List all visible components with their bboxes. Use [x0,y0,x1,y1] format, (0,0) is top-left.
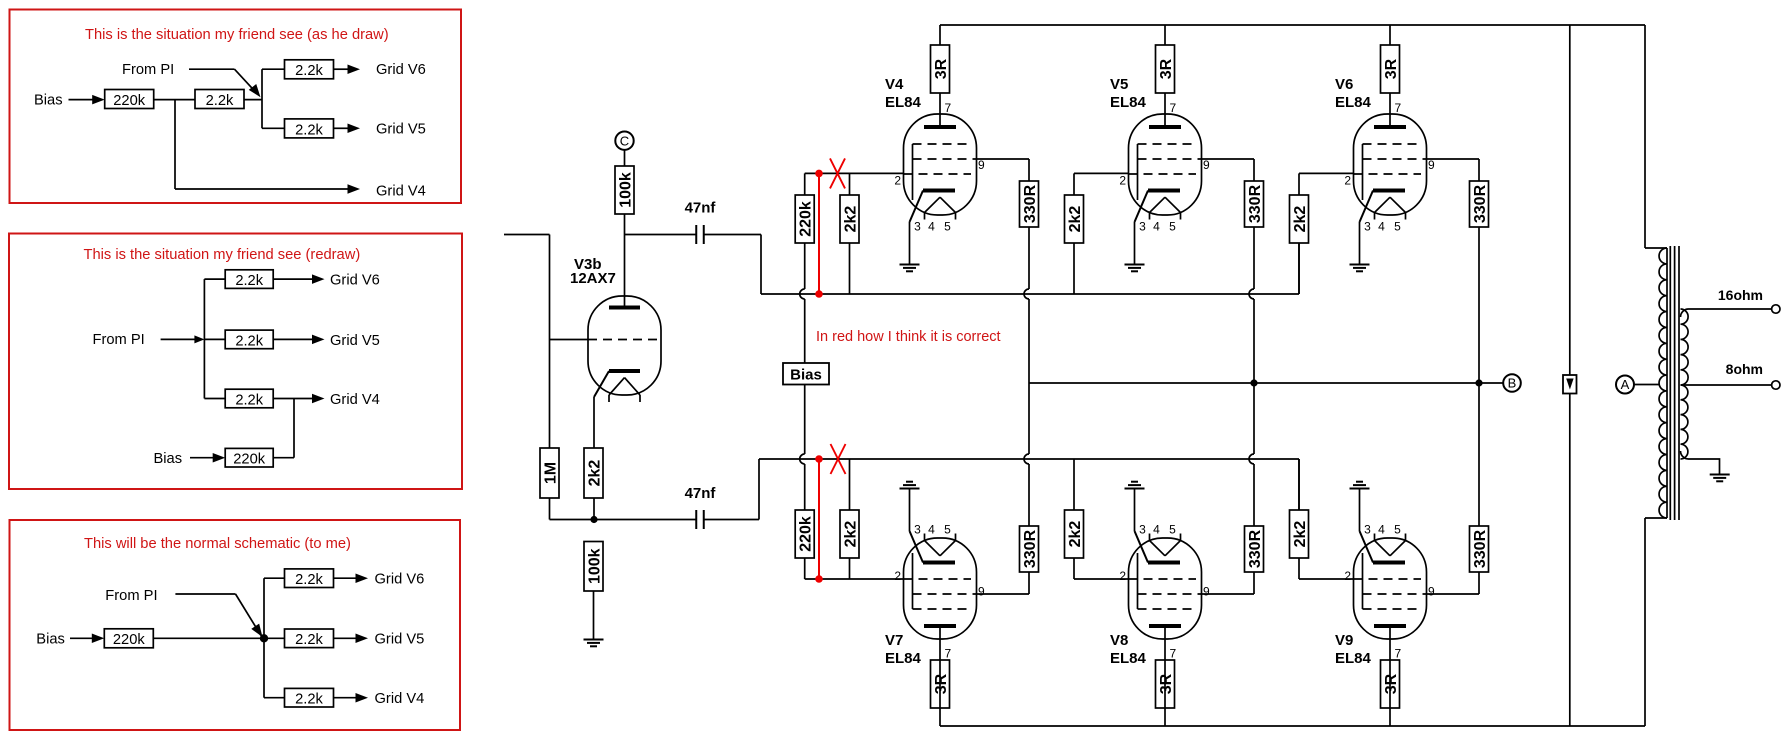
svg-text:3: 3 [1364,220,1371,234]
svg-text:2k2: 2k2 [1067,206,1084,233]
svg-text:2: 2 [1119,174,1126,188]
svg-text:3: 3 [1139,220,1146,234]
svg-text:3: 3 [1139,523,1146,537]
svg-text:2: 2 [1344,174,1351,188]
svg-text:C: C [620,133,629,148]
svg-text:2k2: 2k2 [842,206,859,233]
svg-text:330R: 330R [1247,529,1264,568]
svg-text:2k2: 2k2 [842,521,859,548]
svg-text:Bias: Bias [154,451,183,467]
svg-text:2: 2 [1344,569,1351,583]
svg-text:1M: 1M [542,462,559,484]
svg-text:A: A [1621,377,1630,392]
svg-text:V6: V6 [1335,76,1353,93]
svg-text:3R: 3R [933,58,950,79]
svg-text:9: 9 [1428,158,1435,172]
svg-text:2.2k: 2.2k [235,392,263,408]
svg-text:7: 7 [1395,101,1402,115]
svg-text:5: 5 [944,523,951,537]
svg-text:220k: 220k [798,516,815,552]
svg-text:2: 2 [1119,569,1126,583]
svg-text:4: 4 [928,220,935,234]
svg-text:220k: 220k [233,452,266,468]
svg-text:This will be the normal schema: This will be the normal schematic (to me… [84,536,351,552]
svg-text:3: 3 [914,523,921,537]
svg-text:2.2k: 2.2k [295,63,323,79]
svg-text:3R: 3R [1383,673,1400,694]
svg-text:From PI: From PI [122,62,174,78]
svg-text:5: 5 [944,220,951,234]
svg-text:100k: 100k [617,172,634,208]
svg-text:4: 4 [1153,523,1160,537]
svg-text:EL84: EL84 [1110,94,1147,111]
svg-text:2: 2 [894,569,901,583]
svg-text:2k2: 2k2 [1292,521,1309,548]
svg-text:Grid V4: Grid V4 [375,691,425,707]
svg-text:V5: V5 [1110,76,1128,93]
svg-text:EL84: EL84 [1335,94,1372,111]
svg-text:4: 4 [1378,220,1385,234]
svg-text:5: 5 [1394,220,1401,234]
svg-text:9: 9 [978,158,985,172]
svg-text:EL84: EL84 [885,650,922,667]
svg-text:5: 5 [1169,523,1176,537]
svg-text:16ohm: 16ohm [1718,287,1763,303]
svg-text:This is the situation my frien: This is the situation my friend see (as … [85,27,389,43]
svg-text:V4: V4 [885,76,904,93]
svg-text:V9: V9 [1335,632,1353,649]
svg-text:2k2: 2k2 [1292,206,1309,233]
svg-text:330R: 330R [1022,184,1039,223]
svg-text:330R: 330R [1472,529,1489,568]
svg-text:EL84: EL84 [1110,650,1147,667]
svg-text:Grid V4: Grid V4 [330,392,380,408]
svg-text:330R: 330R [1247,184,1264,223]
svg-text:2.2k: 2.2k [295,572,323,588]
svg-text:100k: 100k [586,548,603,584]
svg-text:2: 2 [894,174,901,188]
svg-text:4: 4 [1378,523,1385,537]
svg-text:7: 7 [1395,647,1402,661]
svg-text:V8: V8 [1110,632,1128,649]
svg-text:5: 5 [1394,523,1401,537]
svg-text:2.2k: 2.2k [206,93,234,109]
svg-text:330R: 330R [1022,529,1039,568]
svg-text:V7: V7 [885,632,903,649]
svg-text:2k2: 2k2 [586,460,603,487]
svg-text:2.2k: 2.2k [295,632,323,648]
svg-text:2.2k: 2.2k [295,122,323,138]
svg-text:EL84: EL84 [1335,650,1372,667]
svg-text:2.2k: 2.2k [295,692,323,708]
svg-text:3: 3 [914,220,921,234]
svg-text:330R: 330R [1472,184,1489,223]
svg-text:47nf: 47nf [685,200,717,217]
svg-text:Grid V6: Grid V6 [330,273,380,289]
svg-text:4: 4 [928,523,935,537]
svg-text:8ohm: 8ohm [1726,361,1763,377]
svg-text:3R: 3R [1158,58,1175,79]
svg-text:Grid V5: Grid V5 [330,333,380,349]
svg-text:3R: 3R [1158,673,1175,694]
svg-text:3R: 3R [1383,58,1400,79]
svg-text:EL84: EL84 [885,94,922,111]
svg-text:Bias: Bias [34,92,63,108]
svg-text:9: 9 [1203,158,1210,172]
svg-text:Bias: Bias [36,631,65,647]
svg-text:From PI: From PI [105,588,157,604]
svg-text:This is the situation my frien: This is the situation my friend see (red… [84,247,361,263]
svg-text:2k2: 2k2 [1067,521,1084,548]
svg-text:220k: 220k [113,632,146,648]
svg-text:5: 5 [1169,220,1176,234]
svg-text:7: 7 [945,647,952,661]
svg-text:7: 7 [945,101,952,115]
svg-text:9: 9 [1203,585,1210,599]
svg-text:220k: 220k [113,93,146,109]
svg-text:Bias: Bias [790,367,822,384]
svg-text:Grid V5: Grid V5 [375,632,425,648]
svg-text:3: 3 [1364,523,1371,537]
svg-text:Grid V6: Grid V6 [376,62,426,78]
svg-text:In red how I think it is corre: In red how I think it is correct [816,329,1001,345]
svg-text:12AX7: 12AX7 [570,270,616,287]
svg-text:47nf: 47nf [685,485,717,502]
svg-text:2.2k: 2.2k [235,333,263,349]
svg-text:Grid V5: Grid V5 [376,122,426,138]
svg-text:3R: 3R [933,673,950,694]
svg-text:9: 9 [1428,585,1435,599]
svg-text:9: 9 [978,585,985,599]
svg-text:Grid V4: Grid V4 [376,183,426,199]
svg-text:4: 4 [1153,220,1160,234]
svg-text:Grid V6: Grid V6 [375,572,425,588]
svg-text:From PI: From PI [93,332,145,348]
svg-text:B: B [1508,376,1517,391]
svg-text:7: 7 [1170,647,1177,661]
svg-text:2.2k: 2.2k [235,273,263,289]
svg-text:220k: 220k [798,201,815,237]
svg-text:7: 7 [1170,101,1177,115]
